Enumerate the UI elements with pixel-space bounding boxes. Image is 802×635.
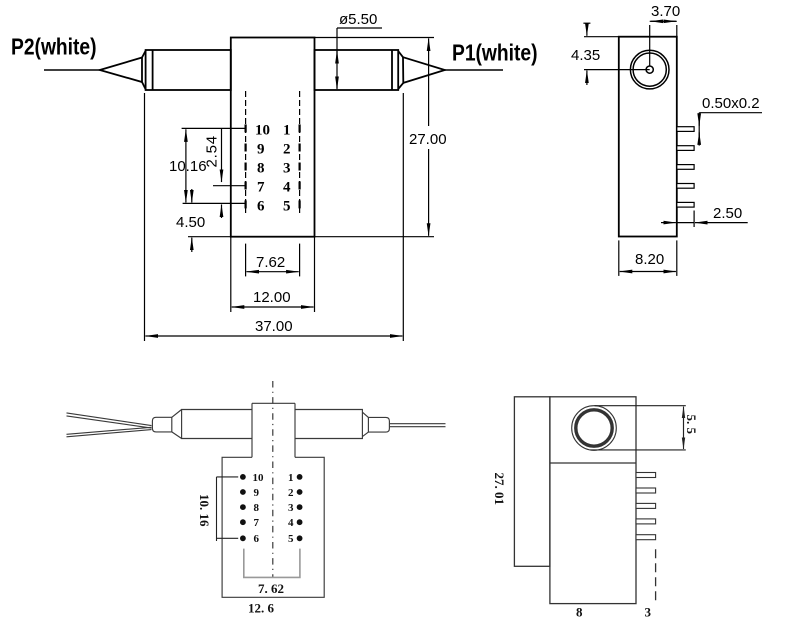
collimator circle outer [630, 50, 669, 89]
pin dots left column [240, 474, 303, 541]
svg-text:7: 7 [257, 180, 265, 196]
collimator circle inner [633, 53, 666, 86]
center dash-dot line [272, 381, 274, 577]
dimension 27.00 [315, 38, 435, 237]
divider line [550, 462, 636, 464]
side circle outer [572, 406, 617, 451]
right cone chamfer [398, 51, 403, 89]
dimension 10.16 line [185, 129, 187, 202]
right chamfer neck [362, 412, 368, 436]
dimension 4.35 [583, 23, 649, 85]
right fiber wire (double) [389, 423, 445, 425]
svg-text:6: 6 [257, 199, 265, 215]
pin ticks left column [245, 124, 247, 208]
svg-text:8: 8 [257, 161, 265, 177]
svg-text:5: 5 [288, 533, 294, 545]
svg-text:5. 5: 5. 5 [684, 415, 699, 435]
left fiber wire upper (double) [67, 413, 152, 426]
center block [251, 403, 253, 457]
left flange rect [514, 397, 550, 567]
svg-text:9: 9 [254, 487, 260, 499]
svg-text:2: 2 [283, 142, 291, 158]
left cylinder ring [152, 50, 154, 90]
dimension 0.50x0.2 [699, 113, 762, 146]
pin column line left [246, 91, 300, 213]
svg-text:4: 4 [283, 180, 291, 196]
svg-text:10. 16: 10. 16 [197, 494, 212, 527]
pin numbers left column 10 9 8 7 6 [255, 123, 270, 215]
svg-text:27. 01: 27. 01 [492, 473, 507, 506]
pin dot numbers left [253, 472, 265, 545]
side body rectangle [619, 37, 677, 237]
side circle ring bold [576, 410, 612, 446]
pin numbers right column 1 2 3 4 5 [283, 123, 291, 215]
svg-text:8.20: 8.20 [635, 251, 664, 268]
main side body [550, 397, 636, 604]
dimension 37.00 [145, 93, 404, 341]
svg-text:P2(white): P2(white) [11, 34, 97, 60]
svg-text:4: 4 [288, 517, 294, 529]
side pins bottom [636, 473, 656, 540]
pin dot numbers right [288, 472, 294, 545]
svg-text:3.70: 3.70 [651, 3, 680, 20]
svg-text:1: 1 [288, 472, 294, 484]
svg-text:3: 3 [645, 605, 652, 620]
dimension 4.50 [188, 189, 231, 252]
svg-text:37.00: 37.00 [255, 318, 293, 335]
svg-text:10: 10 [255, 123, 270, 139]
left cone [100, 58, 142, 83]
left fiber wire [44, 69, 100, 71]
svg-text:P1(white): P1(white) [452, 40, 538, 66]
dimension 10.16 bracket [217, 477, 239, 541]
dimension 3.70 [650, 21, 677, 66]
svg-text:12.00: 12.00 [253, 289, 291, 306]
left cone chamfer [142, 51, 146, 89]
svg-text:5: 5 [283, 199, 291, 215]
svg-text:6: 6 [254, 533, 260, 545]
dimension 2.50 [661, 211, 748, 228]
dimension 7.62 bracket [244, 549, 300, 578]
svg-text:2: 2 [288, 487, 294, 499]
main tube [182, 410, 363, 439]
right fiber wire [445, 69, 503, 71]
pin column line right [299, 91, 301, 213]
body rectangle [231, 38, 315, 237]
svg-text:3: 3 [288, 502, 294, 514]
dimension 5.5 [590, 406, 686, 450]
left ferrule [152, 417, 171, 432]
side pins [677, 127, 694, 207]
left fiber wire lower (double) [67, 427, 152, 434]
dimension 2.54 [221, 128, 223, 218]
left collimator cylinder [146, 50, 231, 90]
pin ticks right column [299, 124, 301, 208]
svg-text:8: 8 [576, 605, 583, 620]
dimension 7.62 [246, 244, 300, 277]
right cone [403, 57, 445, 83]
svg-text:0.50x0.2: 0.50x0.2 [702, 95, 760, 112]
svg-text:2.50: 2.50 [713, 205, 742, 222]
pin dash line [655, 549, 657, 602]
pin dots right column [297, 474, 303, 480]
dimension 10.16 extension lines [182, 128, 246, 203]
left chamfer neck [172, 410, 182, 439]
svg-text:3: 3 [283, 161, 291, 177]
svg-text:ø5.50: ø5.50 [339, 11, 377, 28]
svg-text:7. 62: 7. 62 [258, 581, 284, 596]
dimension 12.00 [231, 237, 315, 312]
right ferrule [368, 417, 389, 432]
svg-text:7: 7 [254, 517, 260, 529]
right cylinder ring [391, 50, 393, 90]
right collimator cylinder [315, 50, 399, 90]
svg-text:10.16: 10.16 [169, 158, 207, 175]
svg-text:10: 10 [253, 472, 265, 484]
dimension 8.20 [619, 240, 677, 276]
svg-text:8: 8 [254, 502, 260, 514]
svg-text:4.50: 4.50 [176, 214, 205, 231]
dimension diameter 5.50 [337, 28, 382, 89]
svg-text:9: 9 [257, 142, 265, 158]
svg-text:12. 6: 12. 6 [248, 601, 275, 616]
svg-text:4.35: 4.35 [571, 47, 600, 64]
lower body [222, 457, 324, 597]
fiber bore circle [646, 66, 653, 73]
svg-text:27.00: 27.00 [409, 131, 447, 148]
svg-text:1: 1 [283, 123, 291, 139]
svg-text:7.62: 7.62 [256, 254, 285, 271]
svg-text:2.54: 2.54 [204, 135, 221, 167]
